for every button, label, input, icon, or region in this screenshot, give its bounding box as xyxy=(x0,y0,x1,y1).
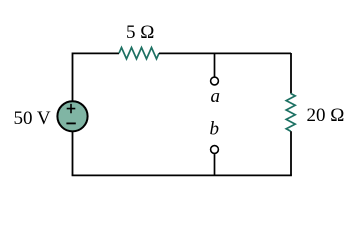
svg-text:50 V: 50 V xyxy=(14,108,51,129)
wire: middle branch upper (top rail to terminal a) xyxy=(214,53,216,77)
svg-text:a: a xyxy=(211,86,221,107)
terminal a (open circle) xyxy=(211,77,219,85)
voltage source minus sign xyxy=(66,122,75,124)
wire: right branch upper (top-right corner down to 20Ω) xyxy=(290,53,292,94)
wire: right branch lower (20Ω down to bottom-right corner) xyxy=(290,131,292,175)
wire: bottom rail xyxy=(72,174,292,176)
svg-text:20 Ω: 20 Ω xyxy=(307,105,345,126)
wire: middle branch lower (terminal b to bottom rail) xyxy=(214,154,216,175)
wire: left top segment (source top to top-left corner to 5Ω resistor) xyxy=(73,53,120,100)
voltage source 50 V (independent source circle) xyxy=(57,101,87,131)
svg-text:5 Ω: 5 Ω xyxy=(126,22,154,43)
svg-text:b: b xyxy=(210,119,220,140)
resistor 20 Ω (vertical zigzag) xyxy=(286,94,295,132)
resistor 5 Ω (horizontal zigzag) xyxy=(119,48,159,59)
voltage source plus sign xyxy=(67,104,76,113)
wire: left bottom segment (source bottom to bottom-left corner) xyxy=(72,132,74,175)
terminal b (open circle) xyxy=(211,146,219,154)
wire: top rail right of resistor xyxy=(159,52,291,54)
